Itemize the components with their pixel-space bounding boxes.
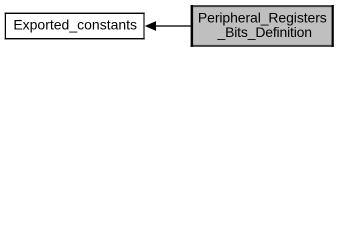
node Peripheral_Registers_Bits_Definition top border — [191, 5, 334, 7]
node Peripheral_Registers_Bits_Definition left border — [191, 5, 194, 47]
node Exported_constants right border — [143, 13, 144, 40]
svg-text:Exported_constants: Exported_constants — [13, 16, 137, 32]
node Peripheral_Registers_Bits_Definition bottom border — [191, 45, 334, 47]
edge arrowhead — [145, 21, 156, 31]
node Peripheral_Registers_Bits_Definition right border — [332, 5, 334, 47]
node Exported_constants left border — [5, 13, 6, 40]
node Exported_constants bottom border — [5, 38, 145, 39]
node Exported_constants top border — [5, 13, 145, 14]
svg-text:Peripheral_Registers: Peripheral_Registers — [198, 9, 327, 25]
node Exported_constants box fill — [6, 14, 145, 39]
edge wire from Peripheral_Registers_Bits_Definition to Exported_constants — [155, 25, 191, 27]
svg-text:_Bits_Definition: _Bits_Definition — [216, 24, 311, 40]
node Peripheral_Registers_Bits_Definition box fill — [193, 6, 333, 45]
